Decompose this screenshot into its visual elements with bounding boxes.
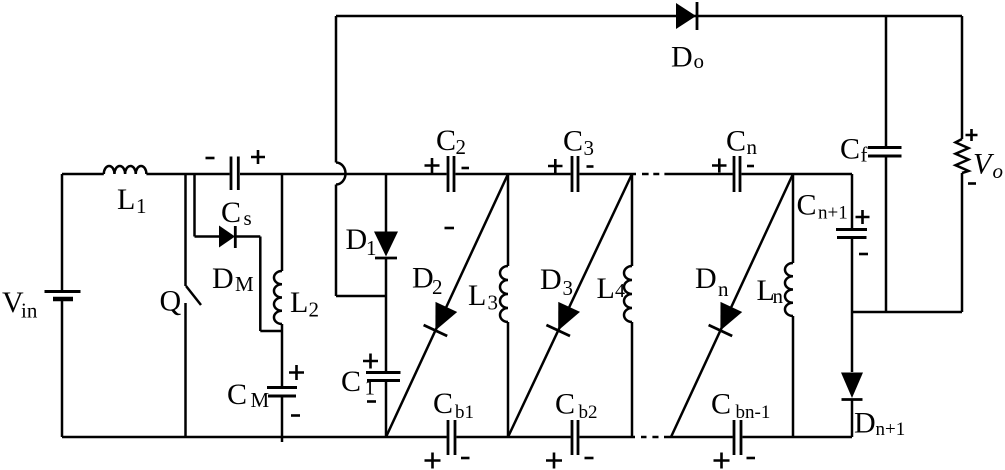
svg-text:3: 3 — [488, 291, 499, 315]
svg-text:1: 1 — [136, 194, 147, 218]
svg-text:o: o — [694, 49, 705, 73]
svg-text:1: 1 — [366, 236, 377, 260]
svg-text:1: 1 — [365, 376, 376, 400]
svg-text:D: D — [412, 262, 434, 295]
svg-text:b2: b2 — [579, 402, 598, 423]
svg-text:C: C — [726, 125, 746, 158]
svg-text:C: C — [840, 133, 860, 166]
svg-text:C: C — [433, 387, 453, 420]
svg-text:D: D — [695, 262, 717, 295]
svg-text:L: L — [468, 279, 486, 312]
svg-text:s: s — [244, 206, 252, 230]
svg-text:2: 2 — [432, 275, 443, 299]
svg-text:2: 2 — [309, 298, 320, 322]
svg-text:M: M — [251, 388, 270, 412]
svg-text:C: C — [227, 378, 247, 411]
svg-text:in: in — [21, 299, 38, 323]
svg-text:L: L — [290, 286, 308, 319]
svg-text:n: n — [747, 135, 758, 159]
svg-text:4: 4 — [615, 280, 625, 302]
svg-text:3: 3 — [563, 276, 574, 300]
svg-text:C: C — [555, 388, 575, 421]
svg-text:D: D — [540, 263, 562, 296]
svg-text:C: C — [436, 124, 456, 157]
svg-text:3: 3 — [584, 136, 595, 160]
svg-text:b1: b1 — [455, 402, 474, 423]
svg-text:L: L — [117, 183, 135, 216]
svg-text:n+1: n+1 — [876, 419, 906, 440]
svg-text:D: D — [854, 407, 876, 440]
svg-text:Q: Q — [160, 285, 182, 318]
svg-text:D: D — [346, 223, 368, 256]
svg-text:C: C — [711, 388, 731, 421]
svg-text:C: C — [563, 125, 583, 158]
svg-text:D: D — [671, 41, 693, 74]
svg-text:M: M — [235, 272, 254, 296]
svg-text:L: L — [597, 272, 615, 305]
svg-text:C: C — [221, 196, 241, 229]
svg-text:C: C — [341, 365, 361, 398]
svg-text:n: n — [773, 284, 784, 308]
svg-text:f: f — [861, 143, 868, 167]
svg-text:2: 2 — [456, 135, 467, 159]
svg-text:n+1: n+1 — [818, 203, 848, 224]
svg-text:D: D — [212, 262, 234, 295]
svg-text:bn-1: bn-1 — [736, 402, 771, 423]
svg-text:o: o — [993, 159, 1004, 183]
svg-text:n: n — [718, 277, 729, 301]
svg-text:C: C — [797, 189, 817, 222]
